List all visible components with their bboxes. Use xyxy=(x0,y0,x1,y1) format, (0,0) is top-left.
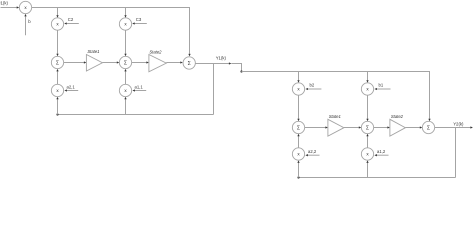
wire A22 to summer S4 xyxy=(297,134,299,148)
svg-text:a1,2: a1,2 xyxy=(377,149,386,154)
wire C3 to summer S2 xyxy=(124,30,126,56)
riser to multiplier A21 xyxy=(56,97,58,115)
wire State1R to summer S5 xyxy=(344,126,361,128)
svg-text:Y2(k): Y2(k) xyxy=(453,122,464,127)
label a2,1 xyxy=(67,85,76,90)
multiplier C3 xyxy=(119,18,131,30)
svg-text:Y1(k): Y1(k) xyxy=(216,55,227,60)
svg-text:Σ: Σ xyxy=(366,125,369,131)
corner dot xyxy=(56,113,58,115)
label a1,1 xyxy=(135,85,144,90)
svg-text:State1: State1 xyxy=(87,49,99,54)
integrator State1 xyxy=(86,55,102,72)
label b xyxy=(28,19,31,24)
gain constant b1 line xyxy=(374,88,390,90)
svg-text:Σ: Σ xyxy=(297,125,300,131)
multiplier A11 xyxy=(119,84,131,96)
gain constant C3 line xyxy=(132,22,147,24)
wire A21 to summer S1 xyxy=(56,69,58,84)
label b1 xyxy=(379,83,384,88)
wire S5 to integrator State2R xyxy=(374,126,390,128)
label State2 right xyxy=(391,114,404,119)
label a1,2 xyxy=(377,149,386,154)
wire S3 output Y1 xyxy=(195,62,231,64)
gain constant b2 line xyxy=(305,88,321,90)
multiplier A12 xyxy=(361,148,373,160)
wire C2 to summer S1 xyxy=(56,30,58,56)
svg-text:b: b xyxy=(28,19,31,24)
label b2 xyxy=(310,83,315,88)
svg-text:b1: b1 xyxy=(379,83,384,88)
svg-text:State1: State1 xyxy=(329,114,341,119)
multiplier B2 xyxy=(292,83,304,95)
gain constant a1,1 line xyxy=(132,89,146,91)
wire A12 to summer S5 xyxy=(366,134,368,148)
summer S2 xyxy=(119,56,131,68)
wire input to multiplier B xyxy=(1,6,20,8)
gain constant a2,1 line xyxy=(64,89,78,91)
top wire right section xyxy=(242,72,431,122)
riser to multiplier A22 xyxy=(297,160,299,177)
multiplier B (input gain) xyxy=(19,1,31,13)
integrator State1 right xyxy=(328,119,344,136)
wire drop to multiplier B2 xyxy=(297,72,299,83)
svg-text:State2: State2 xyxy=(391,114,404,119)
wire drop to multiplier B1 xyxy=(366,72,368,83)
wire State2 to summer S3 xyxy=(166,61,183,63)
wire B2 to summer S4 xyxy=(297,95,299,121)
input label U1(k) xyxy=(0,0,8,5)
wire drop to multiplier C2 xyxy=(56,8,58,18)
corner dot xyxy=(240,70,242,72)
top wire from B to summer S3 xyxy=(32,8,191,57)
riser to multiplier A11 xyxy=(124,97,126,115)
gain constant a1,2 line xyxy=(374,154,388,156)
label State2 xyxy=(149,49,162,54)
feedback tap from Y2 wire xyxy=(455,128,457,178)
summer S4 xyxy=(292,121,304,133)
svg-text:C3: C3 xyxy=(136,17,142,22)
label C3 xyxy=(136,17,142,22)
label Y2(k) xyxy=(453,122,464,127)
feedback tap from Y1 wire xyxy=(213,64,215,115)
wire State2R to summer S6 xyxy=(405,126,422,128)
integrator State2 xyxy=(149,55,166,72)
svg-text:a1,1: a1,1 xyxy=(135,85,144,90)
summer S5 xyxy=(361,121,373,133)
svg-text:Σ: Σ xyxy=(427,125,430,131)
wire S4 to integrator State1R xyxy=(305,126,328,128)
multiplier A22 xyxy=(292,148,304,160)
multiplier C2 xyxy=(51,18,63,30)
wire A11 to summer S2 xyxy=(124,69,126,84)
label C2 xyxy=(68,17,74,22)
wire S6 output Y2 xyxy=(435,126,473,128)
wire S1 to integrator State1 xyxy=(64,61,87,63)
wire drop to multiplier C3 xyxy=(124,8,126,18)
svg-text:b2: b2 xyxy=(310,83,315,88)
label State1 right xyxy=(329,114,341,119)
wire B1 to summer S5 xyxy=(366,95,368,121)
svg-text:C2: C2 xyxy=(68,17,74,22)
summer S6 xyxy=(422,121,434,133)
gain constant C2 line xyxy=(64,22,79,24)
svg-text:Σ: Σ xyxy=(188,61,191,67)
corner dot xyxy=(297,176,299,178)
wire State1 to summer S2 xyxy=(102,61,119,63)
gain constant b line xyxy=(24,14,26,35)
wire S2 to integrator State2 xyxy=(132,61,149,63)
wire Y1 step to right section xyxy=(231,64,241,72)
summer S3 xyxy=(183,57,195,69)
svg-text:Σ: Σ xyxy=(124,60,127,66)
gain constant a2,2 line xyxy=(305,154,319,156)
label State1 xyxy=(87,49,99,54)
svg-text:Σ: Σ xyxy=(56,60,59,66)
bottom feedback wire left xyxy=(58,114,214,116)
label a2,2 xyxy=(308,149,317,154)
bottom feedback wire right xyxy=(299,177,456,179)
label Y1(k) xyxy=(216,55,227,60)
svg-text:a2,1: a2,1 xyxy=(67,85,76,90)
riser to multiplier A12 xyxy=(366,160,368,177)
integrator State2 right xyxy=(390,119,406,136)
svg-text:U1(k): U1(k) xyxy=(0,0,8,5)
multiplier A21 xyxy=(51,84,63,96)
svg-text:a2,2: a2,2 xyxy=(308,149,317,154)
multiplier B1 xyxy=(361,83,373,95)
svg-text:State2: State2 xyxy=(149,49,162,54)
summer S1 xyxy=(51,56,63,68)
